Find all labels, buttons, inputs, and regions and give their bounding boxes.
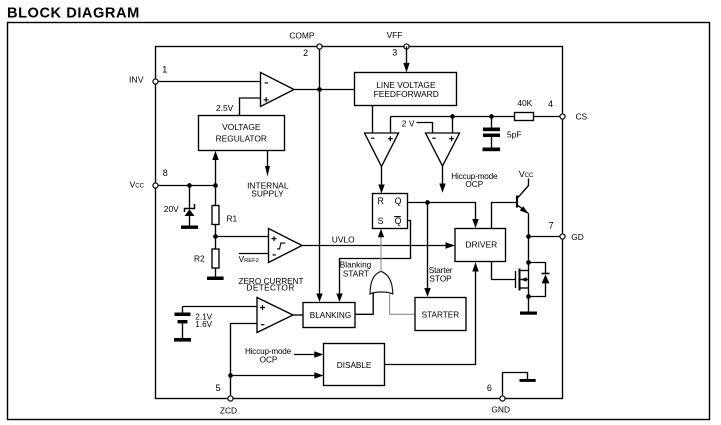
wire driver top to BJT base <box>492 203 517 229</box>
zero current detector label <box>238 277 303 293</box>
svg-text:COMP: COMP <box>289 30 315 40</box>
wire ZCD line arrow to DISABLE <box>231 372 324 378</box>
or-gate blanking/starter to latch S <box>370 271 393 294</box>
wire CS sense line <box>391 116 515 118</box>
svg-text:REGULATOR: REGULATOR <box>216 133 267 143</box>
node rail to MOSFET source <box>526 294 531 299</box>
svg-text:STARTER: STARTER <box>422 311 460 320</box>
wire output rail down to MOSFET <box>528 237 530 297</box>
wire or-gate output arrow to latch S <box>378 229 384 272</box>
wire blanking output to or-gate left input <box>355 293 373 315</box>
svg-text:Q: Q <box>395 216 402 226</box>
transistor BJT totem-pole high side <box>517 169 534 237</box>
wire starter stop from Q to STARTER <box>424 203 452 298</box>
pin 4 CS <box>548 99 587 122</box>
svg-text:Q: Q <box>395 196 402 206</box>
wire OCP comparator output arrow (hiccup-mode OCP) <box>439 166 498 193</box>
svg-text:OCP: OCP <box>465 180 483 189</box>
svg-text:4: 4 <box>548 99 553 109</box>
svg-text:CS: CS <box>576 112 588 122</box>
svg-text:1: 1 <box>162 64 167 74</box>
ground below 5pF <box>483 148 501 152</box>
pin 5 ZCD <box>215 383 237 415</box>
pin 1 INV <box>129 64 167 84</box>
svg-text:OCP: OCP <box>260 356 278 365</box>
node ZCD line to disable branch <box>228 373 233 378</box>
diode MOSFET body diode <box>529 263 550 297</box>
wire PWM comparator output arrow to latch R <box>378 167 384 194</box>
transistor MOSFET low side <box>516 269 529 291</box>
svg-text:BLOCK DIAGRAM: BLOCK DIAGRAM <box>7 6 140 22</box>
op-amp error amplifier <box>261 73 295 107</box>
svg-text:ZCD: ZCD <box>220 406 237 416</box>
wire gate drive rail to GD pin <box>529 236 563 238</box>
svg-text:VOLTAGE: VOLTAGE <box>222 122 261 132</box>
wire GND pin to internal ground <box>503 373 528 396</box>
wire VFF pin arrow into feedforward block <box>403 47 409 73</box>
svg-text:R1: R1 <box>227 214 238 224</box>
wire feedforward to PWM comparator - input <box>372 106 374 134</box>
op-amp zero current detector comparator <box>257 298 293 333</box>
wire Vcc rail from pin 8 <box>156 185 216 187</box>
wire blanking start from latch Qbar to BLANKING <box>336 221 410 303</box>
wire 40K to CS pin <box>534 116 563 118</box>
wire MOSFET source to ground <box>528 297 530 312</box>
svg-text:VFF: VFF <box>387 30 403 40</box>
svg-text:5pF: 5pF <box>507 129 521 139</box>
wire latch Q output to DRIVER <box>408 203 479 229</box>
svg-text:START: START <box>343 269 369 278</box>
wire VREF2 to UVLO comparator - input <box>239 254 269 265</box>
op-amp OCP comparator <box>426 133 460 166</box>
IC boundary box <box>156 47 563 399</box>
svg-text:6: 6 <box>487 383 492 393</box>
wire error amp output to line voltage feedforward <box>294 89 355 91</box>
line voltage feedforward block <box>355 73 457 106</box>
pin 8 Vcc <box>130 168 168 189</box>
svg-text:SUPPLY: SUPPLY <box>251 189 284 199</box>
svg-text:20V: 20V <box>164 204 179 214</box>
node Vcc regulator/divider tap <box>213 183 218 188</box>
svg-text:FEEDFORWARD: FEEDFORWARD <box>374 89 439 99</box>
svg-text:DETECTOR: DETECTOR <box>247 283 295 292</box>
node CS to OCP comparator <box>450 114 455 119</box>
svg-text:DRIVER: DRIVER <box>465 240 497 250</box>
svg-text:DISABLE: DISABLE <box>337 361 372 370</box>
ground below threshold reference <box>174 338 191 342</box>
op-amp PWM comparator <box>365 133 399 167</box>
ground internal near GND pin <box>520 379 536 382</box>
node R1/R2 divider <box>213 234 218 239</box>
svg-text:GD: GD <box>571 232 584 242</box>
ground below 20V zener <box>181 226 198 229</box>
wire R1 to R2 <box>215 225 217 250</box>
wire CS line to PWM comparator + input <box>390 117 392 134</box>
wire 2.5V reference from voltage regulator to error amp + input <box>216 98 261 116</box>
ground below R2 <box>207 277 224 281</box>
wire CS line to OCP comparator + input <box>452 117 454 134</box>
svg-text:7: 7 <box>549 220 554 230</box>
node GD rail emitter junction <box>526 234 531 239</box>
node COMP junction <box>317 87 322 92</box>
svg-text:3: 3 <box>392 47 397 57</box>
resistor 40K <box>515 98 534 121</box>
wire COMP pin down through error amp output to BLANKING <box>316 47 322 303</box>
svg-text:R: R <box>378 196 384 206</box>
wire 2V reference to OCP comparator - input <box>402 118 433 133</box>
pin 7 GD <box>549 220 584 242</box>
node Vcc zener tap <box>187 183 192 188</box>
wire driver bottom to MOSFET gate <box>492 262 516 280</box>
threshold reference 2.1V/1.6V <box>175 307 213 339</box>
svg-text:2.5V: 2.5V <box>216 103 234 113</box>
driver block <box>455 229 506 262</box>
pin 3 VFF <box>387 30 409 57</box>
resistor R2 <box>194 249 219 277</box>
svg-text:8: 8 <box>163 168 168 178</box>
wire INV pin to error amp inverting input <box>156 81 261 83</box>
wire threshold reference to ZCD comparator + input <box>183 306 258 308</box>
capacitor 5pF <box>483 117 521 148</box>
wire ZCD pin to comparator - input <box>231 324 258 399</box>
wire ZCD comparator output to BLANKING <box>293 314 303 316</box>
svg-text:2: 2 <box>303 48 308 58</box>
wire internal supply arrow from voltage regulator <box>247 151 289 199</box>
ground below MOSFET source <box>520 312 537 315</box>
svg-text:Blanking: Blanking <box>340 260 372 269</box>
svg-text:2V: 2V <box>402 118 415 128</box>
voltage regulator block <box>199 116 285 151</box>
disable block <box>324 344 385 386</box>
starter block <box>415 298 466 331</box>
wire starter output to or-gate right input <box>390 293 415 315</box>
node CS to 5pF <box>489 114 494 119</box>
svg-text:S: S <box>378 216 384 226</box>
pin 6 GND <box>487 383 510 414</box>
wire Vcc feed arrow into voltage regulator <box>212 151 218 186</box>
svg-text:R2: R2 <box>194 253 205 263</box>
zener diode 20V <box>164 186 195 226</box>
latch RS flip-flop <box>373 194 408 229</box>
resistor R1 <box>212 186 238 225</box>
svg-text:UVLO: UVLO <box>332 235 355 245</box>
svg-text:40K: 40K <box>517 98 532 108</box>
svg-text:1.6V: 1.6V <box>195 320 212 329</box>
svg-text:INV: INV <box>129 75 144 85</box>
svg-text:GND: GND <box>491 404 510 414</box>
wire UVLO output to DRIVER <box>302 235 455 249</box>
blanking block <box>303 303 355 328</box>
node rail to MOSFET drain <box>526 260 531 265</box>
pin 2 COMP <box>289 30 322 58</box>
node Q output to starter stop branch <box>425 200 430 205</box>
svg-text:BLANKING: BLANKING <box>310 311 351 320</box>
op-amp UVLO comparator <box>269 229 303 263</box>
svg-text:5: 5 <box>215 383 220 393</box>
wire disable output to driver <box>385 262 479 364</box>
wire divider to UVLO comparator + input <box>216 236 269 238</box>
wire hiccup-mode OCP arrow to DISABLE <box>245 347 324 364</box>
svg-text:STOP: STOP <box>430 275 453 284</box>
